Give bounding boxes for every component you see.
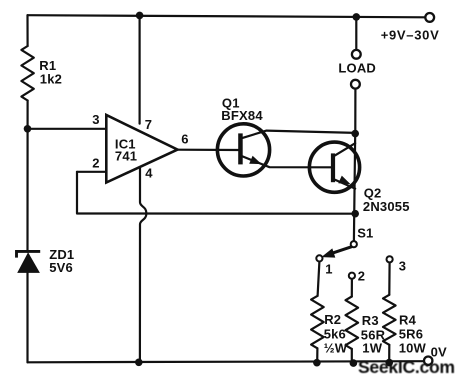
svg-text:2N3055: 2N3055 [363, 199, 410, 214]
svg-text:5k6: 5k6 [324, 326, 346, 341]
junction: top rail / pin7 drop [136, 12, 144, 20]
switch S1 blade with arrow toward pole 1 [330, 247, 352, 254]
transistor Q1 base bar [238, 133, 243, 164]
svg-text:5R6: 5R6 [399, 326, 423, 341]
svg-text:1W: 1W [362, 340, 382, 355]
junction: bottom rail / R3 [350, 359, 358, 367]
zener diode ZD1 cathode bar [17, 251, 41, 257]
svg-text:741: 741 [115, 149, 137, 164]
transistor Q1 emitter arrow [249, 156, 261, 164]
resistor R3 zigzag body [346, 297, 359, 349]
wire: pin7 supply drop from top rail to op-amp [139, 15, 141, 123]
svg-text:S1: S1 [357, 226, 373, 241]
wire: switch pole 1 down to R2 [318, 262, 320, 296]
junction: bottom rail / pin4 drop [135, 359, 143, 367]
wire: top supply rail [28, 15, 426, 17]
wire: op-amp output pin6 to Q1 base [178, 149, 239, 152]
svg-text:LOAD: LOAD [338, 60, 376, 75]
terminal: LOAD lower [351, 80, 360, 89]
wire: Q2 collector stub to vertical node [335, 143, 355, 155]
switch pole contact 1 [316, 255, 322, 261]
switch pole contact 2 [349, 273, 355, 279]
svg-text:10W: 10W [399, 340, 427, 355]
wire: switch pole 3 down to R4 [388, 262, 391, 294]
wire: Q1 collector up-right then to Q2 collector node [243, 131, 356, 138]
svg-text:5V6: 5V6 [49, 260, 73, 275]
svg-text:+9V–30V: +9V–30V [381, 28, 440, 43]
svg-text:7: 7 [145, 117, 152, 132]
svg-text:2: 2 [92, 156, 99, 171]
svg-text:BFX84: BFX84 [221, 108, 263, 123]
terminal: 0V output [424, 357, 432, 365]
wire: R2 bottom to rail [316, 348, 318, 362]
svg-text:R2: R2 [324, 312, 341, 327]
wire: R3 bottom to rail [351, 349, 353, 363]
junction: top rail / load branch [353, 13, 361, 21]
wire: top rail junction down to upper LOAD terminal [355, 17, 357, 50]
resistor R4 zigzag body [383, 295, 396, 345]
svg-text:R4: R4 [399, 312, 417, 327]
transistor Q2 circle [309, 142, 359, 192]
junction: left rail / pin3 branch [24, 125, 32, 133]
junction: bottom rail / R4 [385, 359, 393, 367]
junction: bottom rail / R2 [313, 359, 321, 367]
svg-text:1k2: 1k2 [40, 72, 62, 87]
wire: feedback run from pin2 down and right to Q2 emitter node [77, 172, 355, 214]
svg-text:6: 6 [181, 132, 188, 147]
svg-text:3: 3 [399, 259, 406, 274]
svg-text:SeekIC.com: SeekIC.com [358, 357, 455, 377]
wire: left rail between R1 and ZD1 [26, 101, 28, 252]
wire: Q2 collector junction down past emitter to switch S1 [354, 134, 355, 241]
svg-text:2: 2 [358, 269, 365, 284]
svg-text:4: 4 [145, 166, 153, 181]
junction: Q2 emitter / feedback node [351, 210, 359, 218]
junction: Q2 collector node [351, 130, 359, 138]
wire: left rail top segment (above R1) [26, 15, 28, 46]
wire: lower LOAD terminal down to Q2 collector junction [354, 89, 356, 134]
svg-text:½W: ½W [324, 340, 348, 355]
terminal: LOAD upper [352, 50, 361, 59]
transistor Q2 base bar [331, 153, 335, 182]
wire: pin4 drop with hop over feedback wire, down to bottom rail [140, 168, 147, 362]
resistor R1 zigzag body [21, 46, 33, 101]
resistor R2 zigzag body [311, 296, 324, 348]
svg-text:0V: 0V [431, 345, 447, 360]
transistor Q2 emitter arrow [338, 176, 350, 185]
svg-text:1: 1 [325, 262, 332, 277]
svg-text:R3: R3 [362, 313, 379, 328]
svg-text:R1: R1 [39, 58, 56, 73]
wire: left rail below ZD1 to bottom rail [26, 272, 28, 362]
wire: Q1 emitter diagonal then across to Q2 base [243, 156, 332, 167]
wire: bottom 0V rail [28, 361, 425, 362]
terminal: +9V-30V supply input [425, 13, 434, 22]
wire: non-inverting input pin3 from left rail [28, 128, 107, 130]
op-amp IC1 triangle [106, 115, 177, 183]
wire: inverting input pin2 stub [77, 171, 106, 173]
switch S1 common contact circle [351, 241, 357, 247]
wire: switch pole 2 down to R3 [351, 279, 353, 297]
wire: Q2 emitter stub to vertical node [335, 180, 355, 189]
transistor Q1 circle [217, 124, 269, 176]
switch pole contact 3 [387, 256, 393, 262]
svg-text:3: 3 [92, 112, 99, 127]
wire: R4 bottom to rail [388, 345, 390, 362]
zener diode ZD1 anode triangle [17, 252, 40, 273]
